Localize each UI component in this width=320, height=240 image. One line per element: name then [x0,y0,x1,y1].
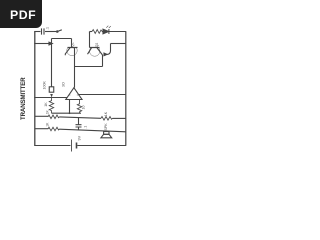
svg-text:SPK: SPK [104,123,108,131]
op-amp U1 triangle [66,88,82,100]
PDF badge [0,0,42,28]
wire drop to Q2 collector with curve [105,44,111,55]
svg-text:Q2: Q2 [95,43,99,48]
transistor Q2 emitter leg [97,48,103,55]
switch S1 throw terminal tick [89,32,91,34]
resistor R6 on line D [48,127,60,131]
wire line C left [35,115,49,117]
svg-text:TRANSMITTER: TRANSMITTER [20,77,27,120]
wire line B (R2 to R3 bottom) [52,112,82,114]
wire y=38.5 to Q1 base stem [52,38,72,40]
arrow into Q2 [104,53,107,56]
wire R1 to LED [102,31,103,33]
wire cap to switch [45,31,56,33]
junction dot on line B [69,112,71,114]
switch S1 lever [58,30,62,31]
microphone line down [51,44,53,87]
svg-text:10: 10 [82,106,86,110]
wire Q1 emitter down to op-amp output node [74,54,76,88]
node vertical up-leg [51,39,53,44]
LED D1 cathode bar [108,29,110,34]
right rail [125,32,127,146]
op-amp U1 input marks [69,94,79,96]
resistor R1 zigzag [92,30,102,34]
svg-text:100K: 100K [43,81,47,90]
transistor Q1 emitter leg [73,48,75,54]
bottom rail left [34,145,70,147]
capacitor C1 plates [42,28,45,34]
transistor Q2 base stem [89,32,91,48]
transistor Q1 base bar [68,47,78,49]
LED D1 arrows [106,26,111,28]
mic arrow to node A [50,94,53,98]
resistor R2 vertical below node A [49,98,53,114]
svg-text:.1: .1 [46,27,50,30]
capacitor C2 stem bottom [78,127,80,130]
svg-text:.1: .1 [84,126,88,129]
wire LED to right rail [109,31,126,33]
wire right rail branch y=43.5 [111,43,127,45]
capacitor C2 plates [76,125,82,127]
svg-text:3O: 3O [61,82,65,87]
resistor R5 on line C [101,117,113,121]
wire Q2 emitter to rail [102,55,104,67]
bottom rail right [77,145,126,147]
svg-text:1K: 1K [45,122,49,127]
capacitor C2 stem top [78,118,80,125]
resistor R4 on line C [48,115,60,119]
speaker SP1 box [104,132,109,135]
microphone MIC1 body [49,87,54,92]
svg-text:1K: 1K [44,102,48,107]
svg-text:1K: 1K [45,110,49,115]
wire base feed (y=43.5 from left rail) [34,43,49,45]
transistor Q1 circle [67,48,77,56]
wire line D left [35,128,49,130]
transistor Q2 collector leg [88,48,92,54]
battery B1 short plate [76,143,78,149]
svg-text:9V: 9V [77,135,81,140]
wire top-left [34,31,40,33]
wire to resistor R1 [90,31,93,33]
wire line C right end [113,117,127,119]
transistor Q2 base bar [90,47,100,49]
switch S1 pole dot [56,30,59,33]
left rail [34,32,36,146]
transistor Q1 base stem [71,39,73,48]
LED D1 triangle [103,29,109,34]
op-amp inverting input drop [69,100,71,114]
arrow on base wire [49,42,52,45]
speaker SP1 cone [101,134,112,138]
transistor Q1 collector leg [65,48,70,55]
wire line A right [79,94,126,96]
battery B1 long plate [71,140,73,152]
wire line D right [60,129,127,132]
svg-text:Q1: Q1 [70,42,74,47]
emitter rail wire y=66.5 [75,66,103,68]
transistor Q2 circle [90,48,100,57]
wire line A left [34,97,67,99]
svg-text:1K: 1K [104,111,108,116]
op-amp noninverting input drop + resistor R3 [77,100,81,114]
wire line C middle [60,117,102,118]
